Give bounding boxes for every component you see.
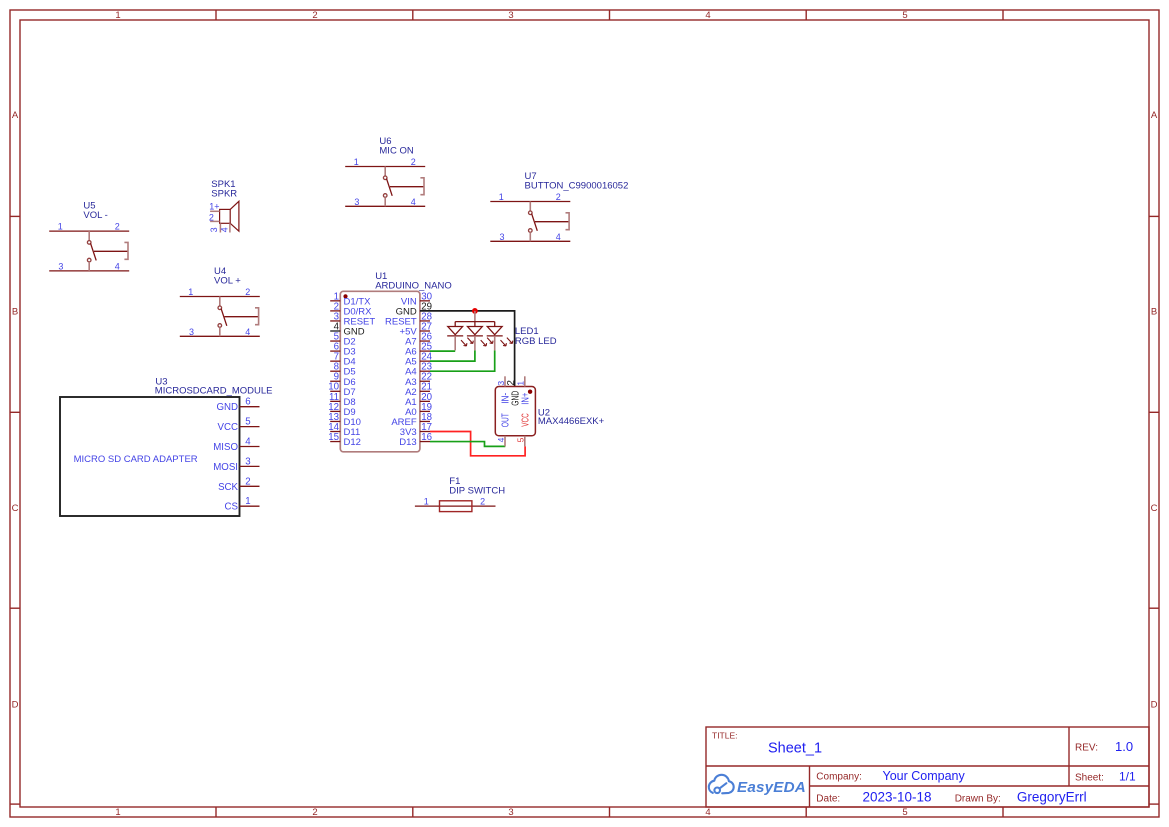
- LED1 diode 1 emission arrows: [461, 340, 467, 346]
- U1 pin 7 D4: [330, 360, 340, 362]
- U1 pin 8 D5: [330, 370, 340, 372]
- switch U5 lever: [91, 243, 97, 260]
- svg-text:VOL +: VOL +: [214, 276, 241, 287]
- LED1 diode 3: [494, 322, 496, 327]
- title block dividers: [706, 765, 1149, 767]
- switch U4 upper contact: [219, 297, 221, 307]
- svg-text:4: 4: [705, 10, 710, 21]
- speaker SPK1 pin 3: [219, 223, 221, 232]
- svg-text:VOL -: VOL -: [83, 210, 107, 221]
- U1 pin 9 D6: [330, 380, 340, 382]
- svg-text:D: D: [12, 699, 19, 710]
- svg-text:2: 2: [209, 212, 214, 222]
- svg-text:2: 2: [411, 157, 416, 167]
- U1 pin 27 +5V: [420, 330, 430, 332]
- svg-text:REV:: REV:: [1075, 742, 1098, 753]
- wire green A4 to LED1 pin: [430, 350, 495, 371]
- wire green D13 to U2 OUT: [430, 442, 505, 447]
- svg-text:4: 4: [115, 261, 120, 271]
- switch U5 upper contact: [88, 231, 90, 241]
- speaker SPK1 pin 2: [210, 220, 220, 222]
- svg-text:B: B: [1151, 307, 1157, 318]
- svg-text:MIC ON: MIC ON: [379, 146, 413, 157]
- U1 body: [340, 291, 420, 452]
- svg-text:4: 4: [245, 437, 251, 448]
- wire green A5 to LED1 pin: [430, 350, 475, 361]
- U1 pin 3 RESET: [330, 320, 340, 322]
- svg-text:SCK: SCK: [218, 482, 238, 493]
- U1 pin 24 A5: [420, 360, 430, 362]
- U1 pin 30 VIN: [420, 300, 430, 302]
- svg-text:3: 3: [354, 197, 359, 207]
- svg-text:B: B: [12, 307, 18, 318]
- junction on GND net at LED1 common anode: [472, 308, 478, 314]
- svg-text:3: 3: [209, 227, 219, 232]
- U3 pin 5 VCC: [240, 426, 260, 428]
- frame column ticks top: [215, 10, 217, 20]
- U1 pin 20 A1: [420, 400, 430, 402]
- U1 pin 14 D11: [330, 431, 340, 433]
- svg-text:4: 4: [220, 227, 230, 232]
- svg-text:2023-10-18: 2023-10-18: [863, 789, 932, 804]
- switch U6 pin 1 line: [345, 166, 425, 168]
- frame row ticks left: [10, 215, 20, 217]
- svg-text:2: 2: [245, 287, 250, 297]
- U3 pin 2 SCK: [240, 485, 260, 487]
- U2 pin 3 IN-: [504, 376, 506, 386]
- svg-text:Drawn By:: Drawn By:: [955, 793, 1001, 804]
- U1 pin 1 D1/TX: [330, 300, 340, 302]
- switch U6 pin 3 line: [345, 205, 425, 207]
- U3 pin 1 CS: [240, 505, 260, 507]
- svg-text:4: 4: [556, 232, 561, 242]
- svg-text:6: 6: [245, 397, 250, 408]
- svg-text:VCC: VCC: [218, 422, 238, 433]
- U1 pin 25 A6: [420, 350, 430, 352]
- switch U5 actuator link: [94, 250, 128, 252]
- wire green A6 to LED1 pin: [430, 350, 455, 352]
- svg-text:IN+: IN+: [519, 393, 531, 405]
- svg-text:1: 1: [188, 287, 193, 297]
- U1 pin 19 A0: [420, 410, 430, 412]
- fuse F1 body: [440, 501, 472, 512]
- U1 pin 22 A3: [420, 380, 430, 382]
- switch U7 upper contact: [529, 202, 531, 212]
- switch U6 lever: [387, 179, 393, 196]
- svg-text:5: 5: [245, 417, 250, 428]
- svg-text:5: 5: [902, 807, 907, 818]
- svg-text:MOSI: MOSI: [213, 462, 238, 473]
- svg-text:Your Company: Your Company: [883, 769, 966, 783]
- svg-text:GND: GND: [216, 402, 238, 413]
- U2 body: [495, 387, 535, 436]
- svg-text:MISO: MISO: [213, 442, 238, 453]
- fuse F1 pins: [415, 505, 496, 507]
- svg-text:1: 1: [354, 157, 359, 167]
- svg-text:SPKR: SPKR: [211, 189, 237, 200]
- switch U6 lower contact: [383, 194, 387, 198]
- U2 pin 5 VCC: [524, 436, 526, 447]
- switch U7 lower contact: [529, 229, 533, 233]
- switch U4 lever: [221, 309, 227, 326]
- svg-text:ARDUINO_NANO: ARDUINO_NANO: [375, 281, 452, 292]
- switch U5 lower contact: [87, 258, 91, 262]
- U1 pin 28 RESET: [420, 320, 430, 322]
- U1 pin 18 AREF: [420, 420, 430, 422]
- svg-text:1: 1: [424, 496, 429, 506]
- svg-text:4: 4: [245, 327, 250, 337]
- svg-text:MICROSDCARD_MODULE: MICROSDCARD_MODULE: [155, 385, 273, 396]
- LED1 diode 2: [474, 322, 476, 327]
- svg-text:MICRO SD CARD ADAPTER: MICRO SD CARD ADAPTER: [74, 454, 198, 465]
- U1 pin 16 D13: [420, 441, 430, 443]
- svg-text:BUTTON_C9900016052: BUTTON_C9900016052: [525, 181, 629, 192]
- U3 pin 6 GND: [240, 406, 260, 408]
- U2 pin 1 marker dot: [528, 390, 532, 394]
- U1 pin 21 A2: [420, 390, 430, 392]
- wire red 3V3 to U2 VCC: [430, 432, 525, 456]
- svg-text:C: C: [12, 503, 19, 514]
- svg-text:CS: CS: [225, 502, 239, 513]
- svg-text:1.0: 1.0: [1115, 739, 1133, 754]
- frame column ticks bottom: [215, 807, 217, 817]
- switch U4 pin 3 line: [180, 335, 260, 337]
- svg-text:2: 2: [312, 10, 317, 21]
- svg-text:3: 3: [189, 327, 194, 337]
- svg-text:1: 1: [516, 381, 526, 386]
- svg-text:1+: 1+: [209, 201, 219, 211]
- frame row ticks right: [1149, 215, 1159, 217]
- U1 pin 23 A4: [420, 370, 430, 372]
- svg-text:VCC: VCC: [519, 413, 531, 427]
- svg-text:GregoryErrl: GregoryErrl: [1017, 789, 1087, 804]
- speaker SPK1 pin 4: [229, 223, 231, 232]
- LED1 common anode bar: [455, 321, 495, 323]
- switch U4 actuator bracket: [255, 308, 259, 325]
- svg-text:3: 3: [496, 381, 506, 386]
- switch U7 pin 1 line: [490, 201, 570, 203]
- switch U6 actuator link: [390, 186, 424, 188]
- svg-text:2: 2: [115, 222, 120, 232]
- svg-text:A: A: [1151, 110, 1158, 121]
- LED1 diode 3 emission arrows: [501, 340, 507, 346]
- speaker SPK1 cone: [230, 201, 239, 231]
- svg-text:4: 4: [411, 197, 416, 207]
- wire GND net black from U1 pin 29 to U2 pin 2: [420, 311, 515, 387]
- LED1 diode 2 emission arrows: [481, 340, 487, 346]
- svg-text:1: 1: [115, 807, 120, 818]
- U1 pin 15 D12: [330, 441, 340, 443]
- svg-text:Sheet_1: Sheet_1: [768, 741, 822, 757]
- switch U7 pin 3 line: [490, 240, 570, 242]
- U1 pin 10 D7: [330, 390, 340, 392]
- svg-text:2: 2: [556, 192, 561, 202]
- svg-text:5: 5: [516, 437, 526, 442]
- svg-text:3: 3: [245, 456, 250, 467]
- switch U5 actuator bracket: [124, 242, 128, 259]
- switch U6 actuator bracket: [420, 178, 424, 195]
- U1 pin 6 D3: [330, 350, 340, 352]
- svg-text:Sheet:: Sheet:: [1075, 772, 1104, 783]
- switch U7 actuator link: [535, 221, 569, 223]
- svg-text:2: 2: [245, 476, 250, 487]
- U3 body: [60, 397, 240, 516]
- U1 pin 13 D10: [330, 420, 340, 422]
- switch U5 pin 3 line: [49, 270, 129, 272]
- svg-text:15: 15: [328, 432, 339, 443]
- U1 pin 17 3V3: [420, 431, 430, 433]
- U1 pin 4 GND: [330, 330, 340, 332]
- svg-text:2: 2: [312, 807, 317, 818]
- svg-text:3: 3: [499, 232, 504, 242]
- U2 pin 1 IN+: [524, 376, 526, 386]
- svg-text:D13: D13: [399, 437, 416, 448]
- svg-text:RGB LED: RGB LED: [515, 336, 557, 347]
- speaker SPK1 body: [220, 209, 231, 223]
- switch U7 actuator bracket: [566, 213, 570, 230]
- speaker SPK1 pin 1: [210, 210, 220, 212]
- switch U7 lever: [532, 214, 538, 231]
- svg-text:D: D: [1151, 699, 1158, 710]
- svg-text:C: C: [1151, 503, 1158, 514]
- switch U4 pin 1 line: [180, 296, 260, 298]
- svg-text:OUT: OUT: [499, 413, 511, 427]
- svg-text:5: 5: [902, 10, 907, 21]
- svg-text:3: 3: [58, 261, 63, 271]
- LED1 common anode stem: [474, 311, 476, 322]
- svg-text:D12: D12: [344, 437, 361, 448]
- svg-text:A: A: [12, 110, 19, 121]
- U3 pin 4 MISO: [240, 446, 260, 448]
- svg-text:EasyEDA: EasyEDA: [737, 779, 806, 796]
- U1 pin 2 D0/RX: [330, 310, 340, 312]
- svg-text:1: 1: [58, 222, 63, 232]
- svg-text:1: 1: [499, 192, 504, 202]
- svg-text:Company:: Company:: [816, 771, 862, 782]
- svg-text:Date:: Date:: [816, 793, 840, 804]
- switch U6 upper contact: [384, 167, 386, 177]
- title block outline: [706, 727, 1149, 807]
- U1 pin 5 D2: [330, 340, 340, 342]
- svg-text:4: 4: [705, 807, 710, 818]
- switch U4 lower contact: [218, 324, 222, 328]
- U1 pin 26 A7: [420, 340, 430, 342]
- LED1 diode 1: [454, 322, 456, 327]
- U2 pin 4 OUT: [504, 436, 506, 447]
- svg-text:DIP SWITCH: DIP SWITCH: [449, 486, 505, 497]
- svg-text:TITLE:: TITLE:: [712, 730, 738, 740]
- U1 pin 1 marker dot: [343, 294, 347, 298]
- svg-text:1: 1: [245, 496, 250, 507]
- switch U4 actuator link: [225, 316, 259, 318]
- switch U5 pin 1 line: [49, 230, 129, 232]
- U1 pin 11 D8: [330, 400, 340, 402]
- svg-text:MAX4466EXK+: MAX4466EXK+: [538, 416, 605, 427]
- svg-text:3: 3: [508, 807, 513, 818]
- U1 pin 12 D9: [330, 410, 340, 412]
- svg-text:1: 1: [115, 10, 120, 21]
- EasyEDA logo cloud: [709, 775, 734, 794]
- U3 pin 3 MOSI: [240, 465, 260, 467]
- svg-text:2: 2: [480, 496, 485, 506]
- svg-text:4: 4: [496, 437, 506, 442]
- svg-text:1/1: 1/1: [1119, 769, 1136, 783]
- svg-text:3: 3: [508, 10, 513, 21]
